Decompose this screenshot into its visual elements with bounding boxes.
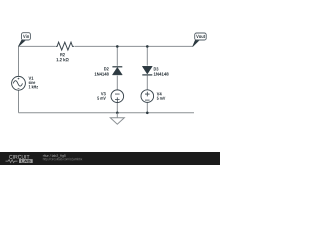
junction node top D3: [146, 45, 149, 48]
source V3: [97, 90, 123, 103]
junction node bottom V3: [116, 112, 119, 115]
junction node top D2: [116, 45, 119, 48]
net label Vout: [193, 33, 206, 46]
source V1 sine: [12, 76, 38, 90]
source V4: [141, 90, 165, 103]
diode D2: [95, 66, 124, 76]
wire D2 V3 branch: [116, 46, 118, 112]
net label Vin: [19, 33, 31, 47]
footer bar: [0, 152, 220, 165]
resistor R2: [55, 42, 74, 62]
junction node bottom V4: [146, 112, 149, 115]
footer text line 1: [43, 154, 66, 157]
wire left branch: [18, 46, 20, 112]
footer logo LAB text: [21, 160, 30, 162]
footer logo LAB box: [19, 159, 33, 163]
diode D3: [141, 66, 168, 76]
wire top rail: [19, 45, 194, 47]
footer logo CIRCUIT: [9, 155, 29, 159]
wire bottom rail: [19, 112, 195, 114]
footer logo resistor zigzag: [6, 160, 18, 163]
footer text line 2: [43, 158, 82, 161]
wire D3 V4 branch: [146, 46, 148, 112]
ground: [110, 113, 124, 124]
